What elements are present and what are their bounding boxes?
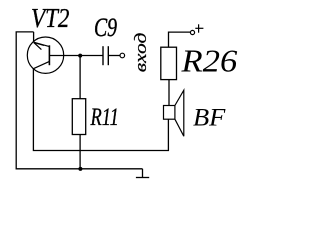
plus sign (195, 24, 203, 32)
node base junction (78, 54, 82, 58)
svg-text:С9: С9 (94, 12, 117, 41)
svg-text:R11: R11 (90, 102, 119, 130)
node supply terminal (190, 30, 194, 34)
wire R11 bottom lead (79, 135, 81, 169)
node ground junction (78, 167, 82, 171)
svg-text:вход: вход (132, 32, 151, 72)
resistor R11 (72, 99, 85, 135)
ground (142, 169, 144, 178)
wire R11 top lead (79, 56, 81, 99)
wire C9 right lead (108, 55, 120, 57)
speaker BF (164, 90, 184, 136)
wire R26 to speaker (168, 80, 170, 106)
wire emitter lead (33, 32, 35, 42)
svg-text:BF: BF (193, 103, 226, 131)
svg-text:R26: R26 (180, 44, 237, 79)
svg-text:VT2: VT2 (31, 3, 70, 33)
capacitor C9 (103, 46, 108, 65)
node input terminal (120, 53, 125, 58)
resistor R26 (161, 47, 177, 79)
transistor VT2 (27, 37, 63, 73)
wire collector to speaker bottom (33, 69, 168, 151)
wire supply to R26 (169, 32, 191, 47)
wire top-left loop from emitter to ground rail (16, 32, 142, 169)
wire base lead (49, 55, 102, 57)
